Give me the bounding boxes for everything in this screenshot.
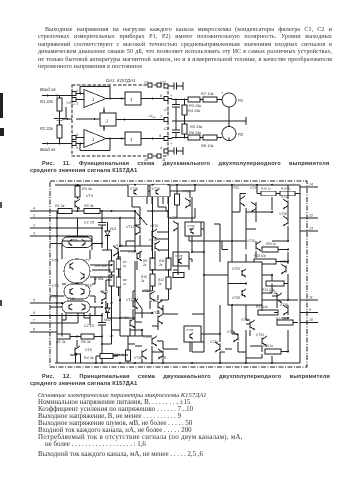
rectifier block B2 — [125, 132, 141, 145]
right supply rail — [299, 185, 301, 363]
svg-text:2к: 2к — [122, 264, 127, 268]
transistor VT38 — [287, 307, 289, 314]
pin 3 — [30, 235, 57, 237]
bottom mesh extras — [120, 317, 130, 319]
resistor R3 3k — [77, 185, 79, 186]
svg-text:5: 5 — [76, 133, 78, 137]
svg-text:6: 6 — [160, 81, 162, 85]
pin 9 — [300, 312, 318, 314]
transistor VT27 — [177, 223, 179, 230]
svg-text:R2 3к: R2 3к — [56, 340, 66, 344]
transistor VT26 — [129, 320, 131, 327]
svg-text:VT10: VT10 — [67, 297, 75, 301]
svg-text:VT29: VT29 — [227, 330, 235, 334]
svg-text:R 50к: R 50к — [94, 277, 104, 281]
svg-text:9: 9 — [309, 308, 311, 312]
pin 8 — [164, 97, 168, 101]
svg-text:-Uпр: -Uпр — [148, 113, 156, 119]
svg-text:VD1: VD1 — [110, 227, 117, 231]
transistor VT13 — [117, 248, 119, 255]
svg-text:R1 3к: R1 3к — [55, 204, 65, 208]
wire right input — [42, 143, 72, 145]
svg-text:VT28: VT28 — [232, 296, 240, 300]
svg-text:VT17: VT17 — [126, 225, 136, 229]
pin 1 — [30, 217, 57, 219]
svg-text:VT34: VT34 — [210, 340, 218, 344]
pin 14 — [300, 186, 318, 188]
svg-text:2к: 2к — [142, 263, 147, 267]
svg-text:VT36: VT36 — [279, 212, 287, 216]
svg-text:VT18: VT18 — [150, 224, 158, 228]
wire J to -Upr — [116, 119, 164, 121]
svg-text:VT33: VT33 — [256, 333, 264, 337]
svg-text:12: 12 — [309, 214, 313, 218]
transistor VT32 — [287, 201, 289, 208]
resistor R8 2k — [116, 277, 121, 287]
boxed transistor VT30m — [185, 222, 201, 236]
resistor R4 15k vertical — [182, 105, 187, 115]
wire mesh horizontals — [62, 240, 92, 242]
pin 10 bottom edge — [148, 154, 152, 158]
wire left input — [42, 95, 72, 97]
svg-text:VT5: VT5 — [86, 194, 94, 198]
svg-text:С2 15: С2 15 — [84, 324, 95, 328]
svg-text:9: 9 — [159, 134, 161, 138]
pin 12 — [300, 217, 318, 219]
pin 4 — [30, 210, 57, 212]
transistor VT21 — [136, 253, 138, 260]
wire to output pin 8 — [141, 98, 164, 100]
caption fig 11 — [42, 161, 342, 168]
resistor R4 3k — [76, 354, 81, 363]
svg-text:VT25: VT25 — [175, 254, 183, 258]
pin 8 — [30, 331, 57, 333]
svg-text:R16 1к: R16 1к — [261, 187, 271, 191]
meter P1 — [222, 93, 236, 107]
pin 13 — [300, 230, 318, 232]
transistor VT24 — [285, 266, 287, 273]
transistor VT36 — [287, 218, 289, 225]
wire pin6 feed — [57, 315, 102, 317]
svg-text:VT30: VT30 — [247, 239, 255, 243]
svg-text:VT9: VT9 — [71, 239, 77, 243]
svg-text:R2 22к: R2 22к — [40, 126, 54, 131]
pin 5 — [30, 302, 57, 304]
pin 6 top-right with correction capacitor — [164, 84, 168, 88]
svg-text:R6 15к: R6 15к — [189, 130, 201, 135]
wire pin3 feed — [57, 235, 92, 237]
wire pin5 feed — [57, 302, 62, 304]
op-amp U1 (left channel) — [84, 90, 106, 108]
svg-text:R20 1к: R20 1к — [266, 242, 277, 246]
svg-text:R4 3к: R4 3к — [84, 356, 94, 360]
svg-text:Вход пк: Вход пк — [40, 147, 56, 152]
svg-text:R5 15к: R5 15к — [190, 124, 202, 129]
wire J up to U1 — [103, 108, 105, 114]
svg-text:DA1 К157ДА1: DA1 К157ДА1 — [106, 78, 136, 83]
pin 6 — [30, 315, 57, 317]
svg-text:С1: С1 — [164, 107, 169, 112]
pin 2 — [72, 92, 76, 96]
pin 2 — [30, 227, 57, 229]
wire pin7 feed — [57, 322, 78, 324]
boxed transistor VT25m — [173, 252, 189, 266]
resistor R13 4.3k — [266, 281, 284, 286]
svg-text:С1 15: С1 15 — [84, 221, 95, 225]
svg-text:VT24: VT24 — [280, 260, 288, 264]
svg-text:VT34: VT34 — [186, 328, 194, 332]
pin 12 top edge — [157, 83, 161, 87]
svg-text:J: J — [105, 119, 109, 125]
svg-text:VT38: VT38 — [280, 303, 288, 307]
svg-text:6: 6 — [76, 146, 78, 150]
svg-text:Р1: Р1 — [238, 98, 243, 103]
svg-text:R8 13к: R8 13к — [201, 143, 215, 148]
svg-text:VT1: VT1 — [52, 259, 59, 263]
svg-text:14: 14 — [309, 183, 313, 187]
top supply rail — [55, 184, 300, 186]
pin 5 — [72, 136, 76, 140]
svg-text:R3 3к: R3 3к — [82, 187, 92, 191]
wire J down to U2 — [103, 126, 105, 131]
svg-text:2к: 2к — [122, 282, 127, 286]
bias block J — [100, 113, 116, 126]
meter P2 — [222, 127, 236, 141]
svg-text:13: 13 — [144, 81, 148, 85]
junction dots — [77, 184, 79, 186]
svg-text:1: 1 — [33, 214, 35, 218]
svg-text:7: 7 — [160, 115, 163, 119]
svg-text:+: + — [170, 142, 173, 146]
center verticals from mirror boxes — [131, 197, 133, 207]
feedback wire op-amp U1 — [106, 98, 110, 100]
svg-text:4: 4 — [33, 207, 35, 211]
pin 14 — [164, 118, 168, 122]
current source box VT25 VT28 — [228, 262, 262, 305]
transistor VT30 — [255, 243, 257, 250]
svg-text:11: 11 — [309, 296, 313, 300]
resistor R15b — [100, 354, 113, 359]
rectifier block B1 — [125, 92, 141, 105]
transistor VT17 — [139, 227, 141, 234]
resistor R5 15k vertical — [182, 124, 187, 134]
pin 10 — [300, 322, 318, 324]
transistor VT20 — [151, 338, 153, 345]
svg-text:2к: 2к — [158, 263, 163, 267]
boxed transistor VT34m — [184, 326, 201, 342]
bottom transistor VT42 — [162, 351, 164, 358]
pin 9 — [164, 137, 168, 141]
transistor VT14 — [132, 301, 134, 308]
svg-text:2: 2 — [32, 224, 35, 228]
svg-text:VT12: VT12 — [100, 290, 108, 294]
wire +Upr to J — [76, 118, 100, 120]
svg-text:2к: 2к — [140, 279, 145, 283]
svg-text:R18 1к: R18 1к — [281, 187, 291, 191]
svg-text:С2: С2 — [164, 126, 170, 131]
top body paragraph — [38, 27, 332, 71]
wire pin8 to filter — [168, 98, 172, 100]
pin 6 — [72, 142, 76, 146]
transistor VT34 — [219, 344, 221, 351]
svg-text:7: 7 — [33, 319, 36, 323]
extra mesh wires — [91, 236, 93, 243]
op-amp U2 (right channel) — [84, 130, 106, 148]
figure 11 svg placeholder — [0, 76, 350, 161]
svg-text:VT30: VT30 — [187, 224, 195, 228]
IC boundary chain-line box — [50, 181, 307, 367]
transistor VT19b — [154, 243, 156, 250]
left input bus — [56, 211, 58, 337]
chassis terminal — [245, 117, 247, 125]
resistor R3 15k — [188, 97, 200, 102]
pin 3 — [72, 98, 76, 102]
svg-text:VT4: VT4 — [52, 284, 59, 288]
svg-text:VT23: VT23 — [152, 311, 160, 315]
transistor VT35 — [276, 295, 278, 302]
transistor VT5 — [77, 197, 79, 199]
caption fig 12 — [42, 374, 342, 381]
bottom transistor VT40 — [141, 351, 143, 358]
wire to output pin 9 — [141, 138, 164, 140]
pin 13 top edge — [148, 83, 152, 87]
more mid wires — [127, 361, 129, 363]
svg-text:Р2: Р2 — [238, 132, 244, 137]
transistor VT18 — [151, 231, 153, 238]
wire mesh verticals — [119, 218, 121, 246]
resistor R7 2k — [116, 259, 121, 269]
svg-text:VT2: VT2 — [50, 295, 57, 299]
resistor R6 15k — [188, 135, 200, 140]
svg-text:8: 8 — [33, 328, 35, 332]
svg-text:5: 5 — [33, 299, 35, 303]
svg-text:13: 13 — [309, 227, 313, 231]
svg-text:VT16: VT16 — [150, 299, 158, 303]
resistor mid — [173, 273, 184, 278]
resistor R17t — [175, 194, 180, 205]
svg-text:2к: 2к — [157, 282, 162, 286]
svg-text:R5 3к: R5 3к — [84, 204, 94, 208]
svg-text:3: 3 — [33, 232, 35, 236]
resistor R15 3k — [126, 350, 131, 361]
input pair VT9 — [62, 237, 92, 248]
svg-text:VT6: VT6 — [85, 348, 93, 352]
svg-text:4: 4 — [160, 146, 162, 150]
pin 11 bottom edge — [157, 154, 161, 158]
electrical parameters list — [38, 392, 308, 459]
pin 9b bottom-right with correction capacitor — [164, 149, 168, 153]
svg-text:VT25: VT25 — [232, 267, 240, 271]
op-amp box DA1 dashed boundary — [72, 85, 168, 156]
transistor VT22 — [149, 293, 151, 300]
ground below R1 — [54, 118, 65, 120]
svg-text:R4 15к: R4 15к — [188, 108, 200, 113]
svg-text:VT38: VT38 — [158, 356, 166, 360]
connectivity extras — [249, 330, 251, 336]
svg-text:R19 1к: R19 1к — [263, 344, 274, 348]
svg-text:VD2: VD2 — [104, 318, 111, 322]
feedback wire op-amp U2 — [106, 138, 110, 140]
svg-text:R6 3к: R6 3к — [81, 340, 91, 344]
svg-text:10: 10 — [309, 318, 313, 322]
pin 7 — [30, 322, 57, 324]
bottom supply rail — [55, 362, 300, 364]
svg-text:+: + — [221, 91, 224, 95]
transistor VT31 — [249, 322, 251, 329]
transistor VT29 — [237, 334, 239, 341]
common rail — [172, 120, 246, 122]
transistor VT11 — [189, 200, 191, 207]
svg-text:3: 3 — [76, 102, 78, 106]
svg-text:Вход лк: Вход лк — [40, 87, 56, 92]
svg-text:8: 8 — [160, 94, 162, 98]
left page-edge scan marks — [0, 93, 3, 118]
transistor VT33b — [261, 338, 263, 345]
transistor VT12 — [105, 293, 107, 300]
svg-text:R7 13к: R7 13к — [201, 91, 215, 96]
svg-text:+: + — [170, 94, 173, 98]
mirror box VT15 — [128, 185, 148, 197]
pin 11 — [300, 299, 318, 301]
transistor VT6 — [74, 348, 76, 355]
wire pin2 feed — [57, 227, 102, 229]
figure 12 svg placeholder — [0, 178, 350, 373]
svg-text:R1 22к: R1 22к — [40, 99, 54, 104]
transistor VT23 — [157, 316, 159, 323]
svg-text:VT36: VT36 — [134, 356, 142, 360]
wire pin1 feed — [57, 217, 120, 219]
wire pin9 to filter — [168, 138, 172, 140]
mirror box VT19 — [150, 185, 170, 197]
svg-text:2: 2 — [75, 89, 78, 93]
transistor VT16 — [157, 302, 159, 309]
svg-text:6: 6 — [33, 311, 35, 315]
